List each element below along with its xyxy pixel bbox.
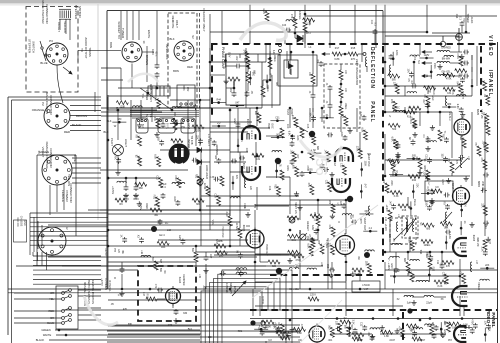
wire v-mesh 10 — [426, 5, 428, 32]
resistor vp4 ZR54 — [430, 326, 434, 336]
resistor R62 220K — [385, 183, 389, 193]
wire IF divider upper — [382, 11, 384, 44]
wire video panel h3 — [380, 333, 446, 335]
svg-text:680: 680 — [139, 187, 144, 190]
wire h-mesh 8 — [138, 127, 270, 129]
wire power bundle v2 — [33, 217, 35, 252]
svg-text:680: 680 — [272, 265, 277, 268]
wire video rail 2 — [390, 275, 460, 277]
svg-text:PHASE COMP: PHASE COMP — [221, 47, 225, 70]
resistor defl ZR21 — [342, 165, 346, 175]
arrow IF takeoff 2 — [422, 62, 432, 65]
resistor defl ZR23 — [358, 149, 362, 159]
junction J80 — [395, 173, 398, 176]
resistor 6.8MEG b — [276, 332, 288, 336]
filament bus wire 2 — [130, 112, 199, 114]
wire h-mesh 1 — [88, 209, 250, 211]
bus wire v12 — [140, 100, 142, 122]
bus wire v7 — [304, 5, 306, 16]
svg-text:BLK: BLK — [169, 37, 174, 41]
ground ps ZG1 — [137, 122, 142, 127]
wire green b — [55, 329, 200, 331]
svg-text:.047: .047 — [363, 183, 366, 188]
arrow jumper wire — [232, 281, 246, 296]
vert integrator dashed box — [324, 64, 360, 128]
coil conv — [445, 96, 447, 106]
wire h-mesh 39 — [255, 254, 289, 256]
coil IF T3 — [437, 74, 450, 76]
capacitor .01 col — [311, 93, 316, 99]
wire v-mesh 32 — [451, 173, 453, 176]
svg-text:ORANGE: ORANGE — [32, 108, 45, 112]
wire IF coil out 3 — [450, 75, 462, 77]
junction J24 — [407, 251, 410, 254]
svg-text:REMOTE: REMOTE — [171, 16, 175, 29]
wire interlock top lead — [156, 11, 158, 63]
wire stub h — [389, 174, 403, 176]
ground GN13 — [203, 268, 208, 273]
capacitor vif ZC24 — [428, 255, 433, 261]
wire h-mesh 15 — [158, 221, 240, 223]
capacitor vp3 ZC38 — [473, 323, 478, 329]
svg-text:REMOTE POSITION: REMOTE POSITION — [91, 280, 95, 304]
wire int chain1 — [340, 80, 342, 88]
svg-text:4700: 4700 — [295, 259, 301, 262]
junction J39 — [199, 99, 202, 102]
svg-text:470K: 470K — [309, 132, 312, 138]
resistor 2.5MEG — [311, 238, 315, 247]
svg-text:BRN: BRN — [109, 42, 113, 48]
wire v8b down — [256, 187, 258, 210]
resistor R22 — [388, 210, 392, 221]
wire motor to P3 — [59, 19, 61, 30]
svg-text:6.8K: 6.8K — [306, 244, 309, 249]
jumper wire remote only — [140, 88, 172, 110]
wire v-mesh 20 — [289, 200, 291, 214]
svg-text:27K: 27K — [351, 57, 356, 61]
svg-text:680: 680 — [426, 252, 429, 257]
wire r28 feed — [317, 200, 319, 214]
svg-text:150K: 150K — [433, 63, 436, 69]
wire to divider — [128, 209, 148, 211]
coil L15b — [389, 65, 391, 75]
potentiometer HEIGHT — [300, 233, 307, 240]
capacitor vif ZC21 — [427, 157, 432, 163]
wire v-mesh 37 — [441, 252, 443, 263]
wire IF coil out 1 — [450, 51, 462, 53]
wire v-mesh 22 — [317, 226, 319, 240]
svg-text:WHITE: WHITE — [147, 30, 151, 39]
scan scratch diagonal 2 — [300, 300, 342, 343]
wire v-mesh 36 — [429, 252, 431, 256]
svg-text:6.8K: 6.8K — [174, 143, 179, 146]
wire stub v — [428, 268, 430, 282]
svg-text:R44: R44 — [216, 99, 221, 102]
svg-text:R44: R44 — [456, 81, 459, 86]
stepper sub-box left — [36, 155, 38, 266]
deflection panel border bottom — [270, 274, 384, 276]
bus wire h15 — [385, 35, 459, 37]
resistor R6 — [438, 130, 442, 141]
resistor vif ZR34 — [444, 274, 448, 284]
svg-text:CONNECTOR: CONNECTOR — [49, 148, 53, 168]
arrow sync input — [322, 53, 330, 56]
jumper bus wire 5 — [218, 274, 286, 343]
ground pilot — [115, 170, 120, 175]
svg-text:L17: L17 — [142, 292, 145, 297]
bus wire v15 — [229, 156, 231, 216]
svg-text:JUMPER: JUMPER — [225, 283, 228, 293]
wire 680 in — [260, 261, 268, 263]
wire v-mesh 5 — [329, 5, 331, 48]
resistor 3.3K b — [228, 216, 232, 226]
coil vp3 ZL22 — [425, 324, 435, 326]
resistor vif ZRh19 — [424, 86, 436, 90]
svg-text:BN-WH: BN-WH — [442, 58, 451, 61]
svg-text:L10: L10 — [167, 229, 172, 232]
resistor vif ZRh13 — [388, 74, 400, 78]
junction J2 — [107, 177, 110, 180]
junction J3 — [125, 177, 128, 180]
resistor 125K 1W — [308, 297, 319, 301]
junction J23 — [441, 251, 444, 254]
resistor redge ZR44 — [485, 114, 489, 124]
resistor 12.3K — [206, 186, 210, 196]
resistor PB 27K — [450, 162, 454, 173]
dashed box 3rd IF xfmr — [390, 218, 416, 244]
wire left rail — [107, 95, 109, 289]
svg-text:150K: 150K — [364, 261, 367, 267]
resistor phase 1MEG2 — [261, 86, 265, 97]
capacitor C44 — [373, 29, 378, 35]
ground GN16 — [395, 154, 400, 159]
ground vp3 ZG16 — [395, 328, 400, 333]
svg-text:WR2: WR2 — [145, 203, 148, 209]
svg-text:Q 820K: Q 820K — [261, 296, 264, 305]
capacitor ps ZC5 — [198, 138, 203, 144]
bus wire v20 — [476, 46, 478, 86]
svg-text:R52: R52 — [153, 195, 156, 200]
junction J53 — [359, 288, 362, 291]
resistor hor hold series — [220, 176, 224, 186]
resistor vert ZRh10 — [288, 234, 300, 238]
wire power bundle v3 — [37, 221, 39, 249]
wire phase h3 — [226, 87, 234, 89]
junction J61 — [465, 31, 468, 34]
svg-text:6.8K: 6.8K — [154, 154, 157, 159]
wire video panel h2 — [330, 333, 372, 335]
arrow IF takeoff 3 — [422, 75, 432, 78]
wire E1-E2 — [256, 322, 261, 324]
svg-text:NJ4Δ: NJ4Δ — [484, 223, 487, 229]
resistor vif ZR28 — [395, 84, 399, 94]
svg-text:GMV: GMV — [452, 327, 458, 330]
ground cap2 — [133, 193, 138, 198]
chassis border top — [107, 10, 383, 12]
svg-text:10K: 10K — [208, 336, 213, 339]
capacitor vp3 ZC36 — [276, 326, 281, 332]
wire socket down — [131, 64, 133, 89]
svg-text:1MEG: 1MEG — [266, 84, 269, 91]
wire r73 bottom — [294, 28, 296, 38]
tuning arrow T3 — [394, 222, 412, 240]
capacitor C55 — [329, 268, 335, 273]
junction J81 — [393, 275, 396, 278]
wire stub v — [276, 164, 278, 178]
wire v-mesh 58 — [239, 222, 241, 228]
junction J41 — [289, 229, 292, 232]
wire power bundle h8 — [30, 244, 108, 246]
resistor vif ZR29 — [393, 101, 397, 111]
resistor R1 180K — [426, 170, 430, 180]
capacitor yoke — [120, 267, 125, 273]
svg-text:C31: C31 — [325, 180, 328, 185]
wire stepper to P2 — [94, 92, 96, 112]
bus wire h14 — [210, 31, 427, 33]
svg-text:C11: C11 — [436, 260, 439, 265]
resistor R divider — [150, 208, 162, 212]
note box RED OR CHASSIS — [14, 220, 27, 242]
svg-text:R44: R44 — [412, 179, 417, 182]
junction J84 — [410, 207, 413, 210]
capacitor phase .002a — [235, 64, 241, 69]
bus wire h23 — [196, 251, 255, 253]
svg-text:560: 560 — [459, 136, 462, 141]
resistor vp3 ZRh31 — [449, 322, 461, 326]
wire stub v — [461, 203, 463, 217]
svg-text:V.9T: V.9T — [364, 289, 369, 291]
wire v-mesh 18 — [413, 62, 415, 84]
wire r17-r15 — [342, 53, 348, 55]
coil vif ZL13 — [407, 92, 417, 94]
ground ps ZG2 — [137, 201, 142, 206]
wire stub h — [112, 121, 126, 123]
svg-text:3.3K: 3.3K — [359, 111, 362, 116]
transformer T4 sound takeoff — [402, 216, 418, 238]
jumper bus wire 2 — [205, 287, 268, 343]
wire int top — [340, 64, 342, 70]
svg-text:3μH: 3μH — [407, 302, 412, 305]
svg-text:.05: .05 — [250, 90, 253, 94]
svg-text:47K: 47K — [398, 326, 401, 331]
svg-text:+270V: +270V — [104, 248, 108, 256]
chassis border bottom / B+ bus — [8, 288, 498, 290]
wire stub h — [170, 122, 184, 124]
junction J97 — [260, 328, 263, 331]
chassis border right — [497, 42, 499, 343]
svg-text:L10→+140V: L10→+140V — [384, 217, 387, 231]
capacitor C11 — [440, 263, 445, 269]
ground GN6 — [154, 132, 159, 137]
junction J16 — [301, 151, 304, 154]
scan scratch diagonal — [252, 205, 378, 298]
wire v-mesh 31 — [419, 169, 421, 176]
coil 22uH — [424, 295, 434, 297]
svg-text:PB: PB — [474, 142, 476, 146]
wire power bundle2 v3 — [41, 252, 43, 265]
resistor R18 — [398, 204, 410, 208]
resistor redge ZR45 — [486, 125, 490, 135]
svg-text:10K: 10K — [392, 82, 395, 87]
wire IF coil out 2 — [450, 62, 462, 64]
wire ac run h — [118, 87, 210, 89]
resistor R19 330 — [428, 258, 432, 269]
bus wire h27 — [255, 253, 292, 255]
coil vert ZL7 — [307, 268, 317, 270]
wire stub h — [420, 57, 434, 59]
wire h-mesh 18 — [62, 265, 323, 267]
svg-text:120K: 120K — [286, 165, 289, 171]
junction J87 — [427, 192, 430, 195]
wire white b — [56, 334, 200, 336]
bus wire v26 — [484, 116, 486, 236]
wire power bundle h6 — [30, 235, 108, 237]
bus wire v9 — [384, 5, 386, 44]
svg-text:3.3K: 3.3K — [306, 23, 311, 26]
scan edge top soft band — [0, 3, 500, 5]
resistor R20 — [406, 262, 410, 273]
svg-text:GMV: GMV — [441, 179, 444, 185]
wire stub h — [307, 152, 321, 154]
test point TP4 (dark) — [276, 268, 282, 274]
wire v-mesh 13 — [249, 108, 251, 128]
junction J92 — [460, 227, 463, 230]
svg-text:C31: C31 — [447, 92, 452, 95]
svg-text:C70: C70 — [118, 294, 123, 297]
capacitor redge ZC32 — [483, 250, 488, 256]
bus wire v21 — [384, 262, 386, 289]
wire power bundle2 h5 — [33, 274, 101, 276]
wire v-mesh 8 — [419, 44, 421, 55]
capacitor C input filter — [161, 122, 166, 128]
coil vp ZL17 — [370, 328, 380, 330]
svg-text:47K: 47K — [123, 308, 128, 311]
resistor R17 — [332, 52, 342, 56]
svg-text:680: 680 — [196, 203, 201, 206]
junction J37 — [117, 109, 120, 112]
wire filter top rail — [108, 177, 160, 179]
resistor R18 1K — [404, 110, 415, 114]
wire h-mesh 37 — [100, 169, 188, 171]
wire top right h — [432, 32, 470, 34]
bus wire v3 — [245, 48, 247, 108]
svg-text:RED OR: RED OR — [16, 217, 19, 227]
capacitor defl ZCh5 — [323, 167, 329, 172]
wire v-mesh 42 — [409, 236, 411, 252]
svg-text:CHASSIS: CHASSIS — [20, 216, 23, 227]
wire vert osc to out — [290, 199, 346, 201]
ground GN11 — [173, 318, 178, 323]
svg-text:R52: R52 — [219, 255, 224, 258]
svg-text:L20: L20 — [407, 239, 410, 244]
svg-text:1MEG: 1MEG — [424, 244, 431, 247]
resistor row3 — [412, 337, 422, 341]
diode X2 box — [284, 60, 298, 78]
panel border top (heavy dashed) — [211, 43, 497, 45]
junction J60 — [426, 31, 429, 34]
bus wire h5 — [210, 61, 266, 63]
print-through ghost 3 — [84, 296, 118, 325]
svg-text:10K: 10K — [483, 321, 486, 326]
wire P2 lead 3 — [70, 115, 101, 117]
bus wire h28 — [255, 281, 346, 283]
capacitor ps ZCh3 — [231, 159, 237, 164]
ground GN15 — [429, 200, 434, 205]
wire stub v — [484, 328, 486, 342]
filament socket 2 — [158, 118, 175, 133]
wire power bundle2 v1 — [32, 252, 34, 256]
svg-text:+140V: +140V — [385, 204, 388, 212]
capacitor vp ZC29 — [353, 328, 358, 334]
wire tuner socket feed 1 — [120, 11, 122, 40]
capacitor ps ZC4 — [193, 104, 198, 110]
svg-text:680: 680 — [426, 228, 431, 231]
wire v-mesh 38 — [395, 252, 397, 267]
svg-text:10K: 10K — [444, 226, 449, 229]
wire power bundle2 h3 — [33, 264, 101, 266]
capacitor ps ZC3 — [175, 200, 180, 206]
svg-text:C29: C29 — [214, 193, 217, 198]
capacitor IF 2 — [463, 61, 469, 66]
tuning arrow L13b — [443, 212, 452, 222]
svg-text:R18: R18 — [402, 209, 407, 212]
wire v-mesh 26 — [439, 112, 441, 126]
junction J78 — [369, 230, 372, 233]
svg-text:1.8K: 1.8K — [314, 219, 319, 222]
wire h-mesh 35 — [128, 107, 210, 109]
wire stub v — [392, 52, 394, 66]
wire h-mesh 4 — [118, 107, 140, 109]
capacitor vif ZC19 — [411, 139, 416, 145]
ground GN2 — [329, 172, 334, 177]
svg-text:22K: 22K — [485, 264, 490, 267]
stepper assembly dashed enclosure — [26, 7, 78, 93]
jumper bus wire 3 — [209, 283, 274, 343]
resistor ps ZR5 — [157, 157, 161, 167]
wire v-mesh 29 — [427, 105, 429, 112]
wire v-mesh 23 — [327, 238, 329, 289]
junction J57 — [229, 288, 232, 291]
resistor vp3 ZRh30 — [406, 324, 418, 328]
svg-text:JUMPER: JUMPER — [145, 90, 148, 100]
junction J45 — [384, 175, 387, 178]
potentiometer HOR HOLD — [197, 178, 204, 185]
wire stepper-connector lead 2 — [72, 162, 101, 164]
ground GN14 — [119, 291, 124, 296]
wire v-mesh 60 — [345, 264, 347, 281]
resistor vif ZRh20 — [422, 223, 434, 227]
svg-text:10K: 10K — [309, 112, 312, 117]
wire v-mesh 17 — [471, 86, 473, 96]
capacitor C27 — [351, 220, 357, 225]
svg-text:6.8K: 6.8K — [448, 234, 451, 239]
resistor vp4 ZRh32 — [352, 333, 364, 337]
svg-text:3RD VIF: 3RD VIF — [476, 237, 479, 247]
wire bottom-left bus 4 — [107, 341, 300, 343]
junction bus x430 — [429, 317, 432, 320]
junction J12 — [312, 51, 315, 54]
connector P2 male chassis — [44, 103, 70, 129]
svg-text:27K: 27K — [240, 138, 243, 143]
bus wire v19 — [356, 108, 358, 132]
wire power bundle h3 — [30, 221, 108, 223]
svg-text:E2-4: E2-4 — [159, 234, 165, 237]
junction J30 — [321, 107, 324, 110]
wire tuner socket feed 3 — [132, 11, 134, 40]
deflection/video IF divider — [382, 46, 384, 262]
stepper switch contacts S1 — [40, 41, 47, 61]
wire phase h4 — [263, 79, 270, 81]
